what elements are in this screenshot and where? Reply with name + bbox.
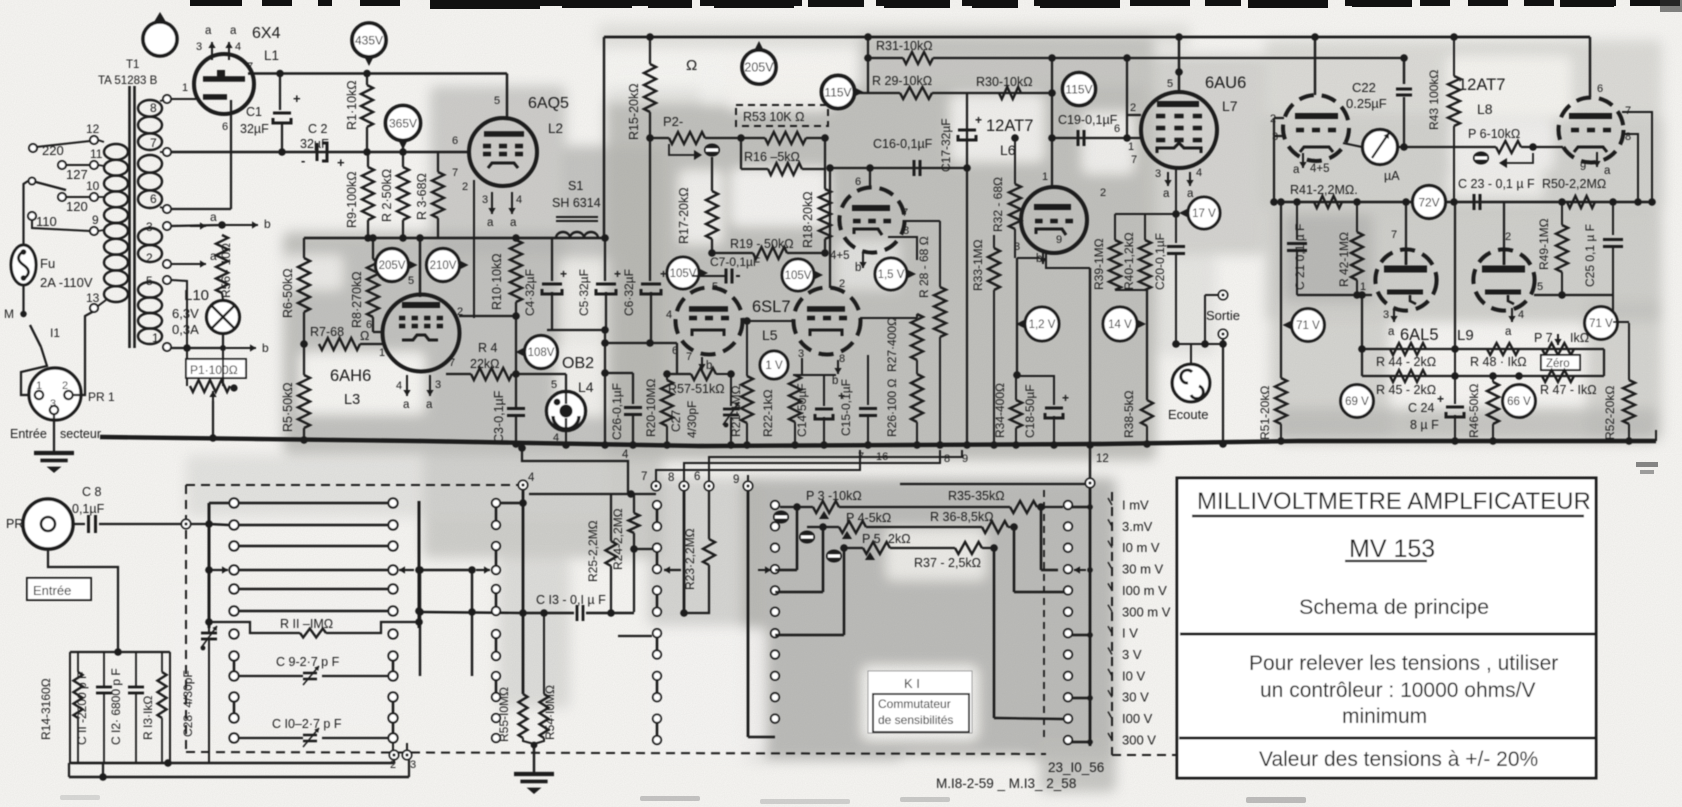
svg-text:C 8: C 8 bbox=[82, 485, 102, 499]
pin 4 wire from bus bbox=[522, 448, 628, 494]
svg-text:L5: L5 bbox=[762, 327, 778, 343]
svg-text:C 9-2·7 p F: C 9-2·7 p F bbox=[276, 655, 340, 669]
wire x967 vertical bbox=[966, 93, 968, 168]
transformer core bbox=[128, 86, 131, 348]
svg-text:R40-1,2kΩ: R40-1,2kΩ bbox=[1122, 232, 1136, 290]
wiper arrow right rung4 bbox=[399, 569, 414, 571]
transformer secondary winding top bbox=[138, 100, 162, 117]
L6a cathode arrow bbox=[862, 253, 864, 268]
secondary tap 8 bbox=[160, 100, 164, 101]
svg-text:R43 100kΩ: R43 100kΩ bbox=[1427, 70, 1441, 130]
svg-text:R 48 · IkΩ: R 48 · IkΩ bbox=[1470, 355, 1527, 369]
svg-text:1: 1 bbox=[152, 331, 159, 345]
L8a cathode a 4+5 bbox=[1302, 153, 1304, 168]
resistor R2-50k bbox=[399, 148, 407, 156]
resistor R1-10k bbox=[363, 70, 371, 78]
svg-text:secteur: secteur bbox=[60, 427, 101, 441]
svg-text:a: a bbox=[230, 25, 237, 37]
wire L7 screen loop bbox=[1126, 58, 1128, 138]
svg-text:205V: 205V bbox=[744, 61, 774, 75]
wiper mark P6 bbox=[1473, 152, 1489, 165]
svg-text:C16-0,1µF: C16-0,1µF bbox=[873, 137, 933, 151]
wiper P4 bbox=[799, 531, 815, 544]
svg-text:a: a bbox=[1187, 188, 1194, 200]
svg-text:R26·100 Ω: R26·100 Ω bbox=[885, 379, 899, 437]
heater wire a (tap2) bbox=[171, 263, 206, 265]
svg-text:R38-5kΩ: R38-5kΩ bbox=[1122, 390, 1136, 438]
svg-text:4: 4 bbox=[622, 449, 629, 461]
wire to ecoute bbox=[1176, 343, 1223, 345]
svg-text:4: 4 bbox=[235, 41, 241, 53]
L5a cathode b arrow bbox=[701, 357, 703, 370]
svg-text:9: 9 bbox=[92, 213, 99, 227]
secondary winding mid bbox=[138, 228, 162, 245]
voltage 115V right bbox=[1063, 73, 1096, 106]
svg-text:6AL5: 6AL5 bbox=[1400, 326, 1439, 344]
wire P2 node junction bbox=[646, 134, 654, 142]
svg-text:1: 1 bbox=[379, 347, 385, 359]
tube 6AH6 L3 bbox=[383, 295, 460, 372]
svg-text:b: b bbox=[832, 375, 838, 387]
svg-text:b: b bbox=[264, 217, 271, 231]
capacitor C1 32uF bbox=[276, 70, 284, 78]
wire PR1 pin3 down bbox=[53, 414, 55, 452]
svg-text:1: 1 bbox=[182, 82, 188, 94]
svg-text:-: - bbox=[301, 153, 305, 168]
voltage 105V left bbox=[667, 257, 699, 289]
voltage 1V bbox=[760, 351, 788, 379]
L9a heater bbox=[1393, 308, 1395, 322]
svg-text:1: 1 bbox=[1128, 141, 1134, 153]
svg-text:4+5: 4+5 bbox=[830, 250, 850, 262]
wafer contact column D (x1068) bbox=[1064, 501, 1072, 509]
svg-text:Schema de principe: Schema de principe bbox=[1299, 595, 1489, 619]
wire L2 pin7 down bbox=[473, 180, 475, 318]
selector switch arm bbox=[32, 181, 66, 190]
svg-text:115V: 115V bbox=[1065, 82, 1092, 96]
svg-text:a: a bbox=[1505, 326, 1512, 338]
secondary tap 1 bbox=[163, 343, 171, 351]
svg-text:6: 6 bbox=[855, 176, 861, 188]
svg-text:300 m V: 300 m V bbox=[1122, 604, 1171, 619]
svg-text:I00 m V: I00 m V bbox=[1122, 583, 1167, 598]
svg-text:R 36-8,5kΩ: R 36-8,5kΩ bbox=[930, 510, 994, 524]
wire R39 R40 bottom to R38 bbox=[1115, 289, 1147, 291]
svg-text:9: 9 bbox=[1580, 161, 1586, 173]
svg-text:7: 7 bbox=[1391, 229, 1397, 241]
voltage 69V bbox=[1341, 385, 1374, 418]
wire 2nd HT line bbox=[171, 151, 469, 153]
svg-text:7: 7 bbox=[858, 451, 864, 463]
svg-text:R9-100kΩ: R9-100kΩ bbox=[345, 171, 359, 228]
L6a anode wire pin7 to R28 bbox=[905, 220, 940, 222]
terminal 12 bbox=[1085, 478, 1094, 487]
svg-text:0.25µF: 0.25µF bbox=[1346, 96, 1387, 111]
wire cathode line y214 bbox=[1115, 213, 1176, 215]
svg-text:a: a bbox=[403, 399, 410, 411]
resistor R15-20k bbox=[646, 33, 654, 41]
svg-text:Entrée: Entrée bbox=[10, 427, 47, 441]
svg-text:4/30pF: 4/30pF bbox=[685, 401, 699, 438]
svg-text:12: 12 bbox=[1096, 453, 1109, 465]
resistor R56-10ohm bbox=[216, 235, 228, 293]
terminals 2 3 bbox=[389, 750, 398, 759]
svg-text:L9: L9 bbox=[1457, 327, 1474, 344]
svg-text:C28· 4/30pF: C28· 4/30pF bbox=[181, 670, 195, 737]
svg-text:M.I8-2-59 _ M.I3_ 2_58: M.I8-2-59 _ M.I3_ 2_58 bbox=[936, 776, 1076, 791]
svg-text:7: 7 bbox=[902, 207, 908, 219]
svg-text:R57-51kΩ: R57-51kΩ bbox=[668, 382, 725, 396]
svg-text:+: + bbox=[337, 155, 345, 170]
svg-text:R22-1kΩ: R22-1kΩ bbox=[761, 389, 775, 437]
svg-text:P 6-10kΩ: P 6-10kΩ bbox=[1468, 127, 1520, 141]
svg-text:32µF: 32µF bbox=[300, 137, 329, 151]
wire L9b rail bbox=[1534, 294, 1613, 296]
svg-text:16: 16 bbox=[876, 451, 888, 463]
resistor R8-270k bbox=[367, 259, 379, 317]
svg-text:R7-68: R7-68 bbox=[310, 325, 344, 339]
wire L7 cathode down bbox=[1175, 168, 1177, 214]
svg-text:6,3V: 6,3V bbox=[172, 306, 199, 321]
svg-text:R21-1MΩ: R21-1MΩ bbox=[729, 385, 743, 437]
svg-text:127: 127 bbox=[66, 167, 88, 182]
svg-text:R56 · 10Ω: R56 · 10Ω bbox=[219, 243, 233, 298]
svg-text:R 28 - 68 Ω: R 28 - 68 Ω bbox=[917, 236, 931, 298]
ladder feed bus bbox=[208, 503, 211, 628]
wire left column R51 bbox=[1280, 202, 1282, 378]
svg-text:9: 9 bbox=[733, 474, 739, 486]
svg-text:66 V: 66 V bbox=[1507, 396, 1531, 408]
svg-text:C 23 - 0,1 µ F: C 23 - 0,1 µ F bbox=[1458, 177, 1535, 191]
capacitor C3-0,1uF bbox=[515, 374, 517, 407]
svg-text:+: + bbox=[1437, 392, 1444, 406]
secondary tap 7 bbox=[160, 151, 163, 153]
svg-text:6: 6 bbox=[452, 135, 458, 147]
jack Ecoute bbox=[1172, 364, 1210, 402]
tube 6X4 L1 bbox=[194, 54, 254, 114]
wire screen line y238 bbox=[304, 237, 605, 239]
svg-text:300 V: 300 V bbox=[1122, 733, 1156, 748]
voltage 71V right bbox=[1585, 307, 1618, 340]
svg-text:R II –IMΩ: R II –IMΩ bbox=[280, 617, 333, 631]
svg-text:R15-20kΩ: R15-20kΩ bbox=[627, 83, 641, 140]
svg-text:a: a bbox=[510, 217, 517, 229]
svg-text:R10·10kΩ: R10·10kΩ bbox=[490, 253, 504, 310]
svg-text:C26-0,1µF: C26-0,1µF bbox=[610, 383, 624, 440]
wire shield return to terminal 3 bbox=[69, 776, 409, 778]
voltage selector 110 bbox=[28, 212, 36, 220]
svg-text:R33-1MΩ: R33-1MΩ bbox=[971, 239, 985, 291]
svg-text:a: a bbox=[205, 25, 212, 37]
svg-text:7: 7 bbox=[452, 167, 458, 179]
svg-text:C1: C1 bbox=[246, 105, 262, 119]
svg-text:R25-2,2MΩ: R25-2,2MΩ bbox=[586, 520, 600, 582]
wafer bus segments left bbox=[656, 509, 659, 522]
svg-text:a: a bbox=[1293, 164, 1300, 176]
svg-text:6: 6 bbox=[1114, 123, 1120, 135]
lamp L10 6,3V 0,3A bbox=[222, 293, 223, 300]
svg-text:R 44 - 2kΩ: R 44 - 2kΩ bbox=[1376, 355, 1436, 369]
svg-text:7: 7 bbox=[150, 136, 157, 150]
svg-text:5: 5 bbox=[1537, 281, 1543, 293]
tube 6AL5 L9 diode b bbox=[1473, 249, 1534, 310]
label Zero bbox=[1541, 355, 1580, 370]
wire R53 right down bbox=[824, 138, 826, 189]
svg-text:Entrée: Entrée bbox=[33, 583, 71, 598]
wire L10 to b lower bbox=[222, 333, 224, 348]
svg-text:R5·50kΩ: R5·50kΩ bbox=[281, 382, 295, 432]
svg-text:C 24: C 24 bbox=[1408, 401, 1434, 415]
svg-text:6: 6 bbox=[150, 192, 157, 206]
tube 12AT7 L8 triode b bbox=[1559, 98, 1624, 163]
svg-text:3: 3 bbox=[435, 379, 441, 391]
wire I1 to PR1 bbox=[21, 347, 47, 395]
primary tap 9 bbox=[90, 227, 98, 235]
voltage 108V bbox=[525, 336, 558, 369]
svg-text:+: + bbox=[293, 91, 301, 106]
wire PR2 shield down bbox=[48, 549, 118, 652]
svg-text:13: 13 bbox=[86, 291, 100, 305]
svg-text:L6: L6 bbox=[1000, 142, 1016, 158]
tube 6SL7 L5 triode b bbox=[794, 288, 861, 355]
svg-text:+: + bbox=[560, 267, 567, 281]
capacitor C26-0,1uF bbox=[601, 369, 609, 377]
svg-text:2kΩ: 2kΩ bbox=[888, 532, 911, 546]
svg-text:12AT7: 12AT7 bbox=[1458, 76, 1505, 94]
svg-text:SH 6314: SH 6314 bbox=[552, 196, 601, 210]
svg-text:2: 2 bbox=[1130, 102, 1136, 114]
svg-text:8: 8 bbox=[839, 353, 845, 365]
wire box bottom to terminal 2 bbox=[71, 762, 394, 764]
resistor R7-68 bbox=[319, 338, 360, 350]
wire grids L5 bbox=[743, 320, 795, 322]
svg-text:I V: I V bbox=[1122, 626, 1138, 641]
svg-text:5: 5 bbox=[551, 379, 557, 391]
wafer contact column E (x496) bbox=[492, 499, 500, 507]
svg-text:R32 - 68Ω: R32 - 68Ω bbox=[991, 177, 1005, 232]
svg-text:5: 5 bbox=[1167, 78, 1173, 90]
resistor R53 10K (dashed box) bbox=[736, 105, 828, 126]
wire y58 bus to C22 bbox=[1052, 57, 1404, 59]
svg-text:M: M bbox=[4, 307, 14, 321]
svg-text:2: 2 bbox=[839, 278, 845, 290]
svg-text:a: a bbox=[1163, 188, 1170, 200]
wiper P5 bbox=[826, 550, 842, 563]
svg-text:22kΩ: 22kΩ bbox=[470, 357, 500, 371]
svg-text:R53 10K Ω: R53 10K Ω bbox=[743, 110, 804, 124]
svg-text:7: 7 bbox=[1131, 154, 1137, 166]
secondary winding bottom bbox=[138, 282, 162, 298]
wiper arrow 30mV bbox=[1074, 569, 1086, 571]
svg-text:R23·2,2MΩ: R23·2,2MΩ bbox=[683, 528, 697, 590]
lower ladder links bbox=[233, 660, 236, 672]
main ground bus bbox=[100, 437, 1656, 446]
svg-text:b: b bbox=[262, 341, 269, 355]
voltage 71V left bbox=[1292, 309, 1325, 342]
label Entree bbox=[27, 578, 91, 600]
ladder right bus bbox=[418, 501, 421, 628]
svg-text:Fu: Fu bbox=[40, 256, 55, 271]
voltage 66V bbox=[1503, 385, 1536, 418]
svg-text:Ecoute: Ecoute bbox=[1168, 407, 1208, 422]
6AQ5 heater pins bbox=[491, 192, 493, 214]
L5b cathode b arrow bbox=[837, 360, 839, 374]
svg-text:3: 3 bbox=[50, 398, 56, 410]
svg-text:R50-2,2MΩ: R50-2,2MΩ bbox=[1542, 177, 1606, 191]
wire input to ladder bbox=[191, 523, 209, 525]
svg-text:3: 3 bbox=[410, 759, 416, 771]
svg-text:1: 1 bbox=[36, 380, 42, 392]
dashed wafer line bbox=[1043, 490, 1045, 742]
voltage selector 220 bbox=[29, 144, 37, 152]
svg-text:R55-I0MΩ: R55-I0MΩ bbox=[497, 687, 511, 742]
svg-text:C22: C22 bbox=[1352, 80, 1376, 95]
ladder rungs lower with C9 C10 bbox=[229, 629, 238, 638]
svg-text:R 42-1MΩ: R 42-1MΩ bbox=[1337, 232, 1351, 287]
voltage 205V bbox=[376, 249, 409, 282]
wafer contact column C (x775) bbox=[771, 501, 779, 509]
svg-text:8: 8 bbox=[1625, 131, 1631, 143]
svg-text:365V: 365V bbox=[389, 116, 417, 130]
switch I1 bbox=[30, 325, 41, 347]
svg-text:1: 1 bbox=[1360, 281, 1366, 293]
svg-text:4+5: 4+5 bbox=[1310, 163, 1330, 175]
svg-text:R 2·50kΩ: R 2·50kΩ bbox=[380, 169, 394, 222]
svg-text:8: 8 bbox=[903, 225, 909, 237]
svg-text:R8·270kΩ: R8·270kΩ bbox=[350, 271, 364, 328]
svg-text:12: 12 bbox=[86, 122, 100, 136]
voltage 115V left bbox=[822, 76, 855, 109]
tube 6SL7 L5 triode a bbox=[676, 288, 743, 355]
svg-text:3: 3 bbox=[482, 194, 488, 206]
svg-text:de sensibilités: de sensibilités bbox=[878, 713, 953, 727]
svg-text:7: 7 bbox=[641, 471, 647, 483]
voltage 1,5V bbox=[875, 258, 907, 290]
svg-text:R37 - 2,5kΩ: R37 - 2,5kΩ bbox=[914, 556, 981, 570]
svg-text:R34-400Ω: R34-400Ω bbox=[993, 383, 1007, 438]
svg-text:P 3 -10kΩ: P 3 -10kΩ bbox=[806, 489, 862, 503]
svg-text:a: a bbox=[1388, 326, 1395, 338]
selector bus right bbox=[1089, 483, 1092, 746]
scan edge artifact top bbox=[190, 0, 242, 6]
svg-text:+: + bbox=[614, 267, 621, 281]
L8b cathode arrow bbox=[1596, 152, 1598, 167]
wire L6b grid from C19 bbox=[1051, 138, 1053, 188]
svg-text:30 V: 30 V bbox=[1122, 690, 1149, 705]
ground (entree secteur) bbox=[34, 451, 74, 455]
svg-text:L4: L4 bbox=[578, 379, 594, 395]
svg-text:72V: 72V bbox=[1418, 195, 1439, 209]
svg-text:2: 2 bbox=[62, 380, 68, 392]
svg-text:7: 7 bbox=[247, 61, 253, 73]
svg-text:+: + bbox=[838, 389, 845, 403]
connector PR1 bbox=[29, 368, 81, 420]
secondary tap 6 bbox=[160, 207, 163, 208]
svg-text:6X4: 6X4 bbox=[252, 25, 281, 42]
svg-text:3 V: 3 V bbox=[1122, 647, 1142, 662]
wire R44 row bbox=[1361, 295, 1363, 349]
svg-text:C25 0,1 µ F: C25 0,1 µ F bbox=[1583, 224, 1597, 287]
svg-text:R6-50kΩ: R6-50kΩ bbox=[281, 268, 295, 318]
L6a pin8 wire bbox=[888, 237, 917, 260]
capacitor C4-32uF electrolytic bbox=[551, 238, 553, 281]
svg-text:3: 3 bbox=[1155, 168, 1161, 180]
svg-text:2A -110V: 2A -110V bbox=[40, 275, 93, 290]
tube 12AT7 L6 triode a bbox=[839, 187, 904, 252]
svg-text:4: 4 bbox=[1518, 309, 1524, 321]
svg-text:105V: 105V bbox=[670, 268, 697, 280]
ladder left feeds bbox=[209, 502, 229, 505]
svg-text:TA 51283 B: TA 51283 B bbox=[98, 75, 158, 87]
voltage 17V bbox=[1188, 197, 1220, 229]
bracket ticks bbox=[1108, 498, 1112, 505]
svg-text:4: 4 bbox=[516, 194, 522, 206]
svg-text:C5·32µF: C5·32µF bbox=[577, 269, 591, 316]
svg-text:Ω: Ω bbox=[360, 329, 369, 343]
svg-text:MILLIVOLTMETRE AMPLFICATEUR: MILLIVOLTMETRE AMPLFICATEUR bbox=[1197, 488, 1591, 515]
svg-text:10: 10 bbox=[86, 179, 100, 193]
svg-text:C 2: C 2 bbox=[308, 122, 328, 136]
svg-text:R18·20kΩ: R18·20kΩ bbox=[801, 191, 815, 248]
svg-text:210V: 210V bbox=[430, 260, 457, 272]
secondary tap 2 bbox=[163, 260, 171, 268]
svg-text:a: a bbox=[1604, 165, 1611, 177]
wire C19 line bbox=[1052, 137, 1142, 139]
svg-text:5: 5 bbox=[494, 95, 500, 107]
svg-text:0,1µF: 0,1µF bbox=[72, 502, 105, 516]
svg-text:L8: L8 bbox=[1477, 101, 1493, 117]
resistor R10-10k bbox=[515, 238, 517, 240]
input RC box R14 C11 C12 R13 bbox=[70, 651, 170, 653]
svg-text:8: 8 bbox=[944, 453, 950, 465]
svg-text:2: 2 bbox=[146, 251, 153, 265]
svg-text:69 V: 69 V bbox=[1345, 396, 1369, 408]
svg-text:205V: 205V bbox=[379, 260, 406, 272]
node marker circle (top left) bbox=[154, 12, 166, 22]
svg-text:2: 2 bbox=[1100, 187, 1106, 199]
svg-text:32µF: 32µF bbox=[240, 122, 269, 136]
voltage 72V bbox=[1413, 186, 1446, 219]
svg-text:4: 4 bbox=[396, 380, 402, 392]
voltage selector 120 bbox=[58, 193, 66, 201]
svg-text:T1: T1 bbox=[126, 59, 139, 71]
L9b heater bbox=[1511, 308, 1513, 322]
resistor R6-50k bbox=[303, 238, 305, 258]
svg-text:I mV: I mV bbox=[1122, 498, 1149, 513]
K1 label box bbox=[868, 671, 972, 733]
svg-text:C3-0,1µF: C3-0,1µF bbox=[492, 390, 506, 443]
svg-text:C I2· 6800 p F: C I2· 6800 p F bbox=[109, 668, 123, 745]
svg-text:Valeur des tensions à +/- 20%: Valeur des tensions à +/- 20% bbox=[1259, 748, 1538, 771]
svg-text:IkΩ: IkΩ bbox=[1570, 331, 1589, 345]
svg-text:R41-2,2MΩ.: R41-2,2MΩ. bbox=[1290, 183, 1358, 197]
svg-text:L3: L3 bbox=[344, 392, 360, 408]
wiper arrow left rung4 bbox=[212, 569, 228, 571]
svg-text:6: 6 bbox=[222, 121, 228, 133]
voltage 365V bbox=[386, 106, 421, 141]
wiper P3 bbox=[773, 511, 789, 524]
svg-text:C I0–2·7 p F: C I0–2·7 p F bbox=[272, 717, 342, 731]
svg-text:105V: 105V bbox=[785, 270, 812, 282]
svg-text:6SL7: 6SL7 bbox=[752, 298, 791, 316]
svg-text:2: 2 bbox=[1505, 231, 1511, 243]
svg-text:C 21 0,1 µ F: C 21 0,1 µ F bbox=[1293, 224, 1307, 290]
uA meter bbox=[1363, 130, 1398, 165]
title block frame bbox=[1177, 478, 1596, 778]
primary tap 12 bbox=[90, 136, 98, 144]
svg-text:R 4: R 4 bbox=[478, 341, 498, 355]
svg-text:8: 8 bbox=[150, 101, 157, 115]
